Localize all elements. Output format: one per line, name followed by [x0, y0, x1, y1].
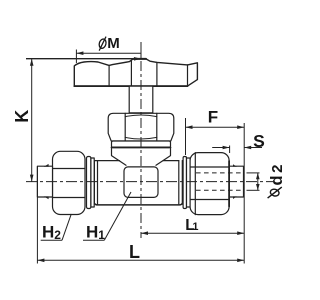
phiM arrow left: [76, 51, 83, 55]
svg-text:H: H: [86, 223, 98, 242]
upper body block left side and chamfer: [112, 148, 127, 166]
body tube top edge right: [163, 160, 179, 162]
handle facet line 2: [130, 61, 132, 86]
body centre cavity block: [124, 167, 158, 198]
S dimension line left part: [212, 147, 229, 149]
handle facet line 4: [187, 65, 189, 86]
phiM arrow right: [134, 57, 141, 61]
label phi d2 (rotated): [268, 164, 286, 198]
handle facet line 3: [156, 62, 158, 86]
right nut face thick line: [228, 161, 230, 207]
right tube-end extension line: [243, 123, 245, 264]
H1 leader underline: [83, 239, 104, 241]
right union nut: [190, 153, 229, 215]
K arrow down: [30, 175, 34, 182]
bonnet hex facet right: [156, 113, 158, 141]
right port face lines: [178, 161, 180, 204]
bonnet hex chamfer arc bottom: [125, 137, 157, 139]
svg-text:1: 1: [98, 228, 105, 242]
phiM left extension line: [75, 50, 77, 64]
svg-text:H: H: [42, 223, 54, 242]
stem / upper bonnet cylinder: [129, 86, 153, 113]
left ring: [87, 157, 91, 209]
left washer band: [91, 158, 94, 207]
handle hub top thick edge: [133, 58, 146, 60]
S left extension line: [229, 146, 231, 154]
handle bottom thick edge: [74, 85, 187, 87]
ferrule wedge right-top: [233, 164, 237, 167]
L1 dimension line: [141, 232, 244, 234]
left nut facet lines: [53, 168, 86, 170]
svg-text:1: 1: [192, 221, 198, 233]
phi d2 extension ticks: [247, 172, 260, 174]
label phiM: [98, 35, 120, 52]
F arrow left: [186, 125, 193, 129]
right nut facet lines: [190, 166, 229, 168]
right ring: [183, 157, 186, 209]
left port face lines: [93, 161, 95, 204]
S dimension line right part: [244, 147, 262, 149]
L dimension line: [37, 259, 244, 261]
left tube stub: [37, 166, 52, 197]
ferrule wedge right-bottom: [233, 196, 237, 199]
svg-text:2: 2: [54, 228, 61, 242]
svg-text:F: F: [208, 108, 218, 127]
bonnet hex nut: [108, 113, 174, 141]
left compression nut H2: [53, 151, 86, 214]
F arrow right: [237, 125, 244, 129]
L arrow right: [237, 259, 244, 263]
F dimension line: [186, 126, 245, 128]
H2 leader slant: [62, 214, 71, 240]
S arrow pointing right at left ext: [223, 146, 230, 150]
F left extension line: [185, 118, 187, 155]
right nut end chamfer line: [194, 153, 196, 215]
L arrow left: [37, 259, 44, 263]
L1 arrow right: [237, 231, 244, 235]
ferrule wedge left-top: [44, 164, 49, 167]
svg-text:M: M: [107, 35, 120, 52]
bore hidden dashes right: [196, 172, 244, 174]
right tube stub: [229, 166, 243, 197]
centre line solid top segment (phiM right extension): [140, 42, 142, 60]
handle front face: [74, 59, 197, 86]
horizontal centre line: [26, 181, 273, 183]
S arrow pointing left at right ext: [244, 146, 251, 150]
upper body block right side and chamfer: [156, 148, 171, 166]
phi d2 arrow down: [256, 184, 260, 190]
body tube bottom edge: [94, 203, 182, 205]
phi d2 arrow up: [256, 173, 260, 179]
body tube top edge left: [94, 160, 119, 162]
vertical centre line: [140, 42, 142, 238]
K arrow up: [30, 59, 34, 66]
handle facet line 1: [108, 65, 110, 86]
phi d2 arrow stem: [257, 173, 259, 190]
svg-text:K: K: [12, 110, 32, 123]
svg-text:2: 2: [269, 164, 286, 172]
right neck band: [187, 158, 191, 207]
H1 leader slant: [104, 192, 131, 240]
bonnet hex facet left: [124, 113, 126, 141]
ferrule wedge left-bottom: [44, 196, 49, 199]
svg-text:L: L: [129, 242, 140, 262]
K top extension line: [26, 58, 141, 60]
left tube-end extension line: [36, 166, 38, 263]
flange bottom thick edge: [112, 146, 171, 148]
H2 leader underline: [41, 239, 62, 241]
phiM dimension line: [76, 52, 141, 54]
bonnet flange: [112, 141, 171, 148]
L1 arrow left: [141, 231, 148, 235]
bonnet hex chamfer arc top: [125, 115, 157, 117]
svg-text:S: S: [253, 131, 265, 151]
svg-text:d: d: [268, 175, 286, 185]
K dimension line: [31, 59, 33, 182]
